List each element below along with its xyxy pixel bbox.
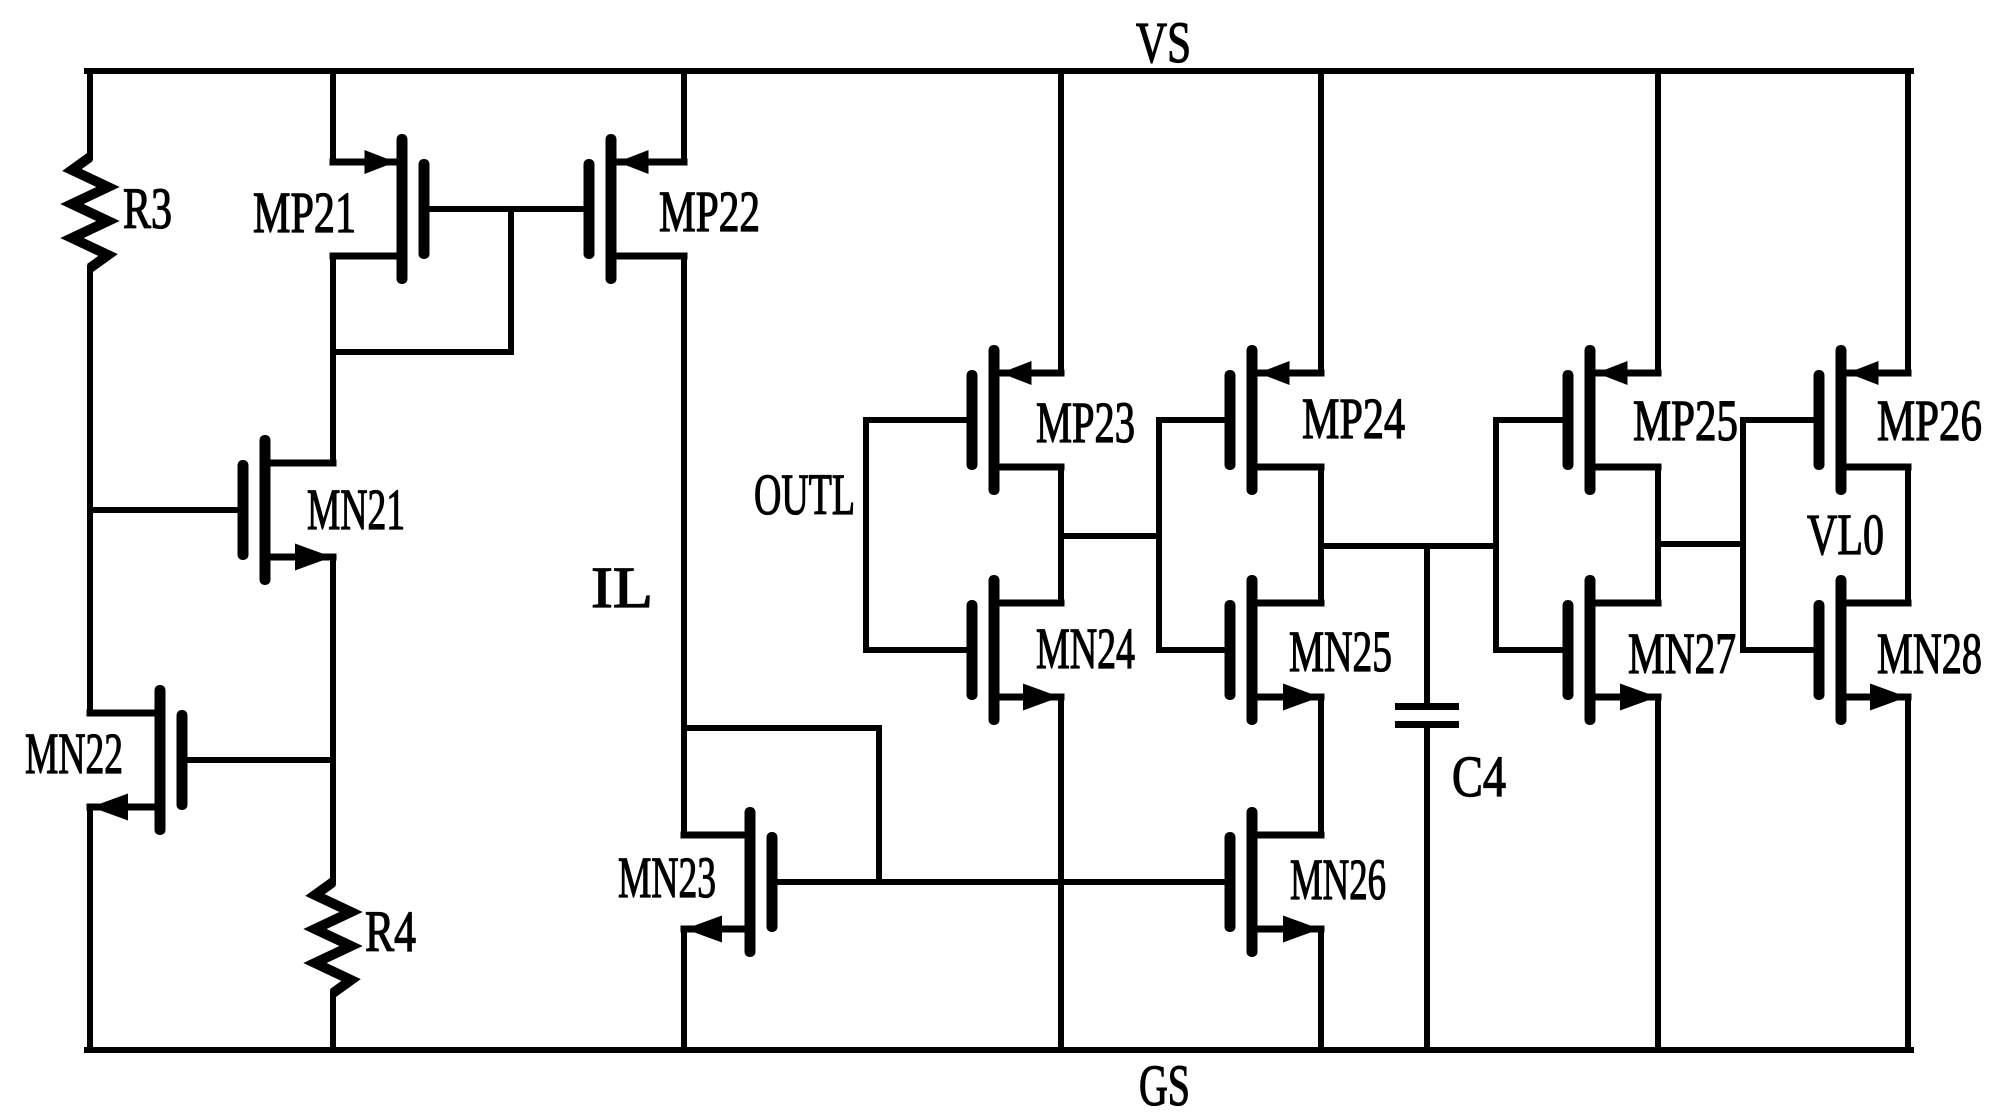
transistor MN23 label: [618, 845, 716, 910]
wire GS bottom rail: [84, 1047, 1914, 1053]
resistor R4: [315, 882, 351, 993]
wire C4 top lead: [1424, 543, 1430, 706]
transistor MN26 label: [1290, 847, 1386, 912]
svg-text:VS: VS: [1136, 10, 1191, 75]
wire stage2 gate vertical: [1156, 417, 1162, 653]
wire right rail (MN28 source to GS): [1905, 694, 1911, 1053]
wire B3 (MP23 drain to MN24 drain): [1058, 464, 1064, 606]
wire MP26 gate stub: [1740, 417, 1822, 423]
capacitor C4 bottom plate: [1395, 721, 1459, 728]
transistor MN28: [1814, 575, 1912, 725]
resistor R3 label: [123, 176, 172, 241]
transistor MP26: [1814, 345, 1912, 495]
wire stage3 output: [1655, 541, 1746, 547]
wire stage1 output: [1058, 533, 1162, 539]
svg-text:OUTL: OUTL: [754, 462, 855, 527]
wire right rail (VS to MP26 source): [1905, 68, 1911, 376]
svg-text:C4: C4: [1452, 744, 1506, 809]
transistor MN27 label: [1628, 621, 1736, 686]
wire B1 (VS to MP21 source): [330, 68, 336, 165]
resistor R4 label: [365, 899, 416, 964]
transistor MN26: [1225, 807, 1325, 957]
svg-text:MP26: MP26: [1877, 388, 1982, 453]
transistor MP24 label: [1302, 386, 1405, 451]
wire B2 (MN23 source to GS): [681, 926, 687, 1053]
wire MN22 gate to B1: [179, 757, 336, 763]
wire MN25 gate stub: [1156, 647, 1233, 653]
svg-text:GS: GS: [1139, 1053, 1190, 1116]
transistor MP25 label: [1633, 388, 1738, 453]
svg-text:MP23: MP23: [1036, 390, 1135, 455]
svg-text:MN26: MN26: [1290, 847, 1386, 912]
node VS label: [1136, 10, 1191, 75]
wire OUTL gate vertical: [863, 417, 869, 653]
resistor R3: [72, 157, 108, 268]
svg-text:MN23: MN23: [618, 845, 716, 910]
wire stage2 output: [1318, 543, 1499, 549]
transistor MP23: [967, 345, 1065, 495]
wire C4 bottom lead: [1424, 725, 1430, 1053]
wire MN23 tie horizontal: [681, 725, 882, 731]
transistor MN25: [1225, 575, 1325, 725]
wire B2 (MP22 drain to MN23 drain): [681, 253, 687, 838]
wire B3 (VS to MP23 source): [1058, 68, 1064, 376]
wire MN24 gate stub: [863, 647, 975, 653]
svg-text:MP21: MP21: [253, 180, 356, 245]
svg-text:MP22: MP22: [659, 179, 760, 244]
wire B4 (MP24 drain to MN25 drain): [1318, 464, 1324, 606]
transistor MP21 label: [253, 180, 356, 245]
svg-text:MN21: MN21: [307, 477, 405, 542]
transistor MN25 label: [1289, 619, 1392, 684]
wire MN27 gate stub: [1493, 647, 1571, 653]
transistor MP22: [584, 134, 688, 284]
svg-text:MN27: MN27: [1628, 621, 1736, 686]
capacitor C4 label: [1452, 744, 1506, 809]
svg-text:VL0: VL0: [1807, 502, 1884, 567]
svg-text:MN24: MN24: [1036, 616, 1135, 681]
wire left rail (R3 to MN22 drain): [87, 265, 93, 716]
wire MP21-MP22 gate link: [421, 206, 592, 212]
wire MN28 gate stub: [1740, 647, 1822, 653]
transistor MP21: [330, 134, 430, 284]
wire B1 (R4 bottom to GS): [330, 990, 336, 1053]
transistor MP23 label: [1036, 390, 1135, 455]
wire MP23 gate stub: [863, 417, 975, 423]
wire MN21 gate to left rail: [87, 507, 246, 513]
wire MN23 tie vertical: [876, 725, 882, 885]
wire B1 (MN21 source to R4 top): [330, 554, 336, 885]
wire stage4 gate vertical: [1740, 417, 1746, 653]
wire right rail (MP26 drain to MN28 drain / VL0 node): [1905, 464, 1911, 606]
wire MP24 gate stub: [1156, 417, 1233, 423]
svg-text:MN28: MN28: [1877, 621, 1982, 686]
wire gate-drain tie vertical: [508, 206, 514, 355]
svg-text:R4: R4: [365, 899, 416, 964]
wire B5 (VS to MP25 source): [1655, 68, 1661, 376]
transistor MP26 label: [1877, 388, 1982, 453]
transistor MN24: [967, 575, 1065, 725]
wire B2 (VS to MP22 source): [681, 68, 687, 165]
wire VS top rail: [84, 68, 1914, 74]
wire B4 (MN25 source to MN26 drain): [1318, 694, 1324, 838]
wire B4 (VS to MP24 source): [1318, 68, 1324, 376]
svg-text:MN22: MN22: [25, 721, 123, 786]
transistor MN22 label: [25, 721, 123, 786]
transistor MN27: [1563, 575, 1662, 725]
wire B4 (MN26 source to GS): [1318, 926, 1324, 1053]
transistor MP22 label: [659, 179, 760, 244]
node OUTL label: [754, 462, 855, 527]
wire gate-drain tie horizontal: [330, 349, 514, 355]
wire B1 (MP21 drain to MN21 drain): [330, 253, 336, 466]
wire stage3 gate vertical: [1493, 417, 1499, 653]
svg-text:MP24: MP24: [1302, 386, 1405, 451]
node VL0 label: [1807, 502, 1884, 567]
transistor MN24 label: [1036, 616, 1135, 681]
transistor MN23: [681, 807, 778, 957]
wire B5 (MN27 source to GS): [1655, 694, 1661, 1053]
node IL label: [591, 555, 653, 620]
wire MN23-MN26 gate line: [769, 879, 1233, 885]
wire B5 (MP25 drain to MN27 drain): [1655, 464, 1661, 606]
capacitor C4 top plate: [1395, 703, 1459, 710]
svg-text:MN25: MN25: [1289, 619, 1392, 684]
transistor MN28 label: [1877, 621, 1982, 686]
svg-text:IL: IL: [591, 555, 653, 620]
transistor MP25: [1563, 345, 1662, 495]
transistor MN21: [238, 435, 337, 585]
wire left rail upper (VS to R3): [87, 68, 93, 160]
svg-text:MP25: MP25: [1633, 388, 1738, 453]
wire MP25 gate stub: [1493, 417, 1571, 423]
wire B3 (MN24 source to GS): [1058, 694, 1064, 1053]
transistor MN21 label: [307, 477, 405, 542]
svg-text:R3: R3: [123, 176, 172, 241]
wire left rail lower (MN22 source to GS): [87, 804, 93, 1053]
node GS label: [1139, 1053, 1190, 1116]
transistor MN22: [87, 685, 188, 835]
transistor MP24: [1225, 345, 1325, 495]
